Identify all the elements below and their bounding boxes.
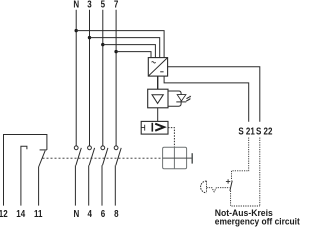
- svg-text:6: 6: [101, 208, 105, 219]
- emergency stop NC contact blade: [230, 181, 232, 191]
- emergency stop contact cross: [226, 179, 230, 183]
- LED cathode bar: [176, 101, 186, 103]
- wire N tap to rectifier: [76, 31, 164, 58]
- switch pole 8 blade: [116, 148, 121, 165]
- wire LED loop: [168, 91, 181, 106]
- switch pole N blade: [76, 148, 81, 165]
- aux contact blade 11: [39, 151, 46, 167]
- svg-text:N: N: [74, 208, 80, 219]
- switch pole 6 blade: [103, 148, 108, 165]
- test button square: [163, 147, 187, 169]
- wire rectifier bottom-right output to S21: [164, 76, 249, 122]
- rectifier U1 diagonal: [149, 58, 168, 76]
- wire 5 tap to rectifier: [103, 45, 156, 58]
- junction dot 7: [114, 50, 117, 53]
- switch pole 8 bottom wire: [114, 165, 116, 205]
- mechanical linkage dashed line: [43, 157, 163, 159]
- aux contact NC tick: [40, 149, 47, 151]
- wire dashed relay to test button: [168, 128, 174, 148]
- svg-text:4: 4: [87, 208, 91, 219]
- switch pole N contact circle: [74, 146, 78, 150]
- svg-text:12: 12: [0, 208, 8, 219]
- svg-text:S 21: S 21: [238, 126, 254, 137]
- test button push rod: [163, 157, 193, 159]
- amplifier box: [148, 89, 168, 108]
- svg-text:11: 11: [34, 208, 42, 219]
- wire S22 dashed external: [259, 138, 261, 207]
- switch pole 4 blade: [89, 148, 94, 165]
- switch pole 6 bottom wire: [101, 165, 103, 205]
- svg-text:3: 3: [87, 0, 91, 10]
- rectifier U1 AC mark ~: [152, 62, 156, 64]
- aux contact wire 12: [4, 135, 47, 206]
- current relay label I stroke: [151, 123, 153, 132]
- switch pole 8 contact circle: [114, 146, 118, 150]
- switch pole 6 contact circle: [101, 146, 105, 150]
- LED arrow 2: [186, 99, 189, 101]
- amplifier triangle: [152, 95, 163, 104]
- LED triangle: [177, 95, 186, 101]
- switch pole 4 bottom wire: [88, 165, 90, 205]
- wire 3 vertical: [89, 10, 91, 146]
- wire rectifier bottom to amplifier: [157, 76, 159, 89]
- rectifier U1 DC mark -: [160, 71, 163, 73]
- wire 7 tap to rectifier: [116, 52, 151, 58]
- test button vertical bar: [173, 147, 175, 169]
- wire S21 dashed external: [232, 138, 249, 181]
- wire N vertical: [75, 10, 77, 146]
- svg-text:emergency off circuit: emergency off circuit: [215, 216, 300, 226]
- current relay label greater-than stroke: [155, 124, 164, 131]
- emergency stop stem: [206, 181, 208, 192]
- svg-text:14: 14: [16, 208, 25, 219]
- wire rectifier right output to S22: [168, 67, 260, 122]
- switch pole N bottom wire: [74, 165, 76, 205]
- svg-text:5: 5: [101, 0, 105, 10]
- wire 7 vertical: [115, 10, 117, 146]
- wire 5 vertical: [102, 10, 104, 146]
- svg-text:S 22: S 22: [256, 126, 272, 137]
- emergency stop actuator dashed with latch notch: [207, 188, 230, 192]
- emergency stop mushroom head: [201, 181, 207, 193]
- svg-text:8: 8: [114, 208, 118, 219]
- rectifier U1 box: [148, 58, 167, 77]
- current relay I> box: [141, 121, 168, 134]
- wire amplifier to current relay: [157, 108, 159, 122]
- wire contact bottom dashed to S22: [231, 191, 260, 206]
- aux contact wire 11: [38, 167, 40, 206]
- junction dot N: [75, 29, 78, 32]
- svg-text:7: 7: [114, 0, 118, 10]
- test button head bar: [191, 153, 193, 163]
- LED arrow 1: [187, 97, 190, 99]
- junction dot 3: [88, 36, 91, 39]
- junction dot 5: [101, 43, 104, 46]
- svg-text:N: N: [73, 0, 79, 10]
- switch pole 4 contact circle: [88, 146, 92, 150]
- wire 3 tap to rectifier: [90, 38, 160, 58]
- aux contact wire 14 hook: [21, 146, 27, 205]
- current relay test winding mark: [141, 125, 145, 131]
